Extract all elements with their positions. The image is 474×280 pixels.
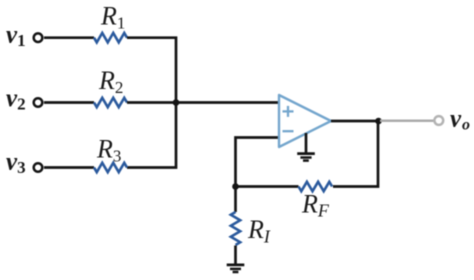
wire RF to node C [333,121,378,187]
wire v3 to R3 [44,166,94,169]
node A (summing junction) [173,99,180,106]
wire R2 to op-amp noninverting input [127,101,279,104]
wire R1 to bus, bus vertical, bus to R3 [127,38,176,168]
resistor R2 [94,98,127,107]
terminal v2 [34,98,43,107]
wire node B to RF [236,185,299,188]
resistor RF [299,182,333,191]
wire v1 to R1 [44,36,94,39]
terminal vo [434,116,443,125]
node B (inverting node) [232,183,239,190]
wire inverting input to node B [236,138,280,187]
resistor R3 [94,163,127,172]
terminal v3 [34,163,43,172]
wire RI to ground [234,246,237,264]
wire node B to RI [234,187,237,213]
ground (RI) [227,265,245,272]
svg-text:o: o [462,117,470,134]
resistor RI [231,212,240,245]
wire v2 to R2 [44,101,94,104]
op-amp U1 [279,95,331,147]
wire node C to output terminal (gray) [380,120,434,123]
terminal v1 [34,33,43,42]
node C (output node) [375,118,382,125]
ground (op-amp) [297,133,315,161]
wire op-amp output to node C [331,120,379,123]
resistor R1 [94,33,127,42]
svg-text:v: v [450,106,462,133]
